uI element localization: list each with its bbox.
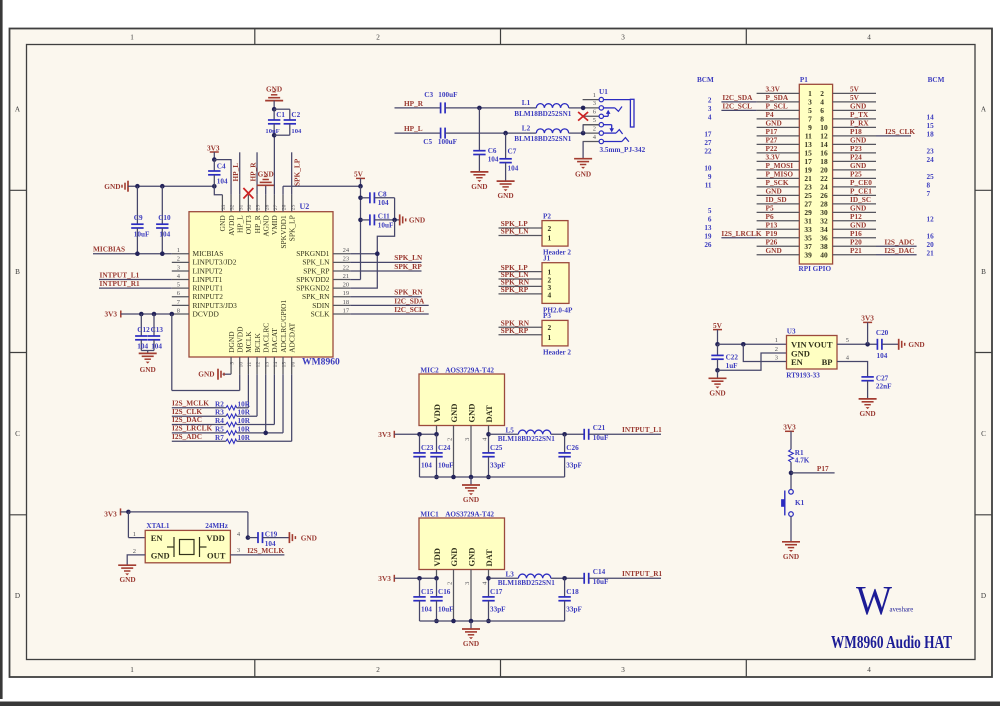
svg-text:3: 3 — [593, 100, 596, 107]
svg-text:R4: R4 — [215, 417, 224, 425]
svg-text:SPKVDD1: SPKVDD1 — [279, 215, 288, 249]
no-connect X on OUT3 — [243, 188, 253, 199]
svg-text:26: 26 — [704, 241, 712, 249]
svg-text:33pF: 33pF — [490, 605, 506, 613]
jack pin3 contact — [604, 107, 623, 112]
svg-text:12: 12 — [256, 362, 262, 368]
svg-text:AOS3729A-T42: AOS3729A-T42 — [445, 510, 494, 518]
svg-text:9: 9 — [230, 362, 236, 365]
svg-text:DAT: DAT — [484, 549, 494, 567]
svg-text:11: 11 — [247, 362, 253, 368]
jack sleeve symbol — [604, 99, 635, 127]
svg-text:2: 2 — [775, 346, 778, 353]
capacitor C5 — [423, 128, 457, 146]
inductor L1 BLM18BD252SN1 — [514, 99, 583, 118]
svg-text:1: 1 — [593, 92, 596, 99]
svg-text:4: 4 — [867, 666, 871, 674]
P1 right pins and nets — [820, 85, 876, 260]
svg-text:C5: C5 — [423, 138, 432, 146]
capacitor C4 — [208, 160, 228, 187]
svg-text:GND: GND — [198, 370, 214, 379]
svg-text:U1: U1 — [599, 88, 608, 96]
U2 right pin names — [296, 249, 330, 318]
net P17 — [791, 464, 835, 473]
net I2S_DAC at P1 — [876, 246, 917, 255]
wire jack pin5 to pin2 — [583, 125, 599, 133]
svg-text:DCVDD: DCVDD — [193, 309, 220, 318]
svg-text:I2S_ADC: I2S_ADC — [172, 432, 202, 441]
resistor R4 I2S_DAC — [172, 374, 275, 427]
wire BP to C27 — [837, 362, 868, 377]
svg-text:3: 3 — [775, 355, 778, 362]
svg-text:HP_L: HP_L — [231, 163, 240, 182]
svg-text:RPI GPIO: RPI GPIO — [799, 265, 832, 273]
svg-text:C11: C11 — [378, 213, 390, 221]
capacitor C13 — [148, 314, 164, 351]
svg-text:C25: C25 — [490, 444, 503, 452]
wire XTAL GND pin — [127, 555, 145, 565]
svg-text:2: 2 — [593, 125, 596, 132]
capacitor C16 — [430, 578, 454, 623]
svg-text:DBVDD: DBVDD — [236, 326, 245, 353]
svg-text:5: 5 — [593, 117, 596, 124]
MIC1 pin names — [432, 548, 494, 567]
svg-text:6: 6 — [708, 216, 712, 224]
svg-text:MIC1: MIC1 — [420, 510, 439, 518]
svg-text:3V3: 3V3 — [104, 510, 117, 519]
net I2S_CLK at P1 — [876, 127, 915, 136]
svg-text:2: 2 — [376, 34, 380, 42]
svg-text:104: 104 — [421, 461, 432, 469]
capacitor C26 — [558, 432, 582, 477]
J1 pin 1 SPK_LP — [499, 263, 552, 277]
svg-text:30: 30 — [247, 204, 253, 210]
U2 left pin stubs and numbers — [172, 247, 189, 314]
wire 3V3 to XTAL VDD — [128, 512, 250, 540]
bottom edge bar — [0, 702, 1000, 706]
svg-text:BLM18BD252SN1: BLM18BD252SN1 — [514, 110, 572, 118]
svg-text:P3: P3 — [543, 312, 551, 320]
capacitor C12 — [135, 314, 150, 351]
regulator U3 body — [786, 328, 837, 380]
capacitor C11 — [361, 213, 400, 230]
capacitor C10 — [156, 186, 171, 256]
op-amp U2 WM8960 body — [189, 202, 340, 368]
svg-text:10R: 10R — [238, 434, 251, 442]
svg-text:GND: GND — [151, 550, 170, 560]
P1 left BCM numbers — [704, 97, 712, 249]
svg-text:2: 2 — [133, 548, 136, 555]
net HP_L to jack — [395, 124, 441, 133]
connector P3 body — [542, 312, 571, 357]
svg-text:10R: 10R — [238, 425, 251, 433]
wire 3V3 to AVDD — [214, 160, 231, 195]
svg-text:10: 10 — [704, 165, 712, 173]
svg-text:3V3: 3V3 — [105, 309, 118, 318]
svg-text:I2S_LRCLK: I2S_LRCLK — [721, 229, 761, 238]
svg-text:HP_L: HP_L — [236, 215, 245, 233]
svg-text:GND: GND — [104, 182, 120, 191]
net SPK_RP at pin22 — [350, 262, 422, 271]
wire GND to SPKGND1 SPKGND2 — [350, 198, 397, 288]
U3 pin numbers — [775, 337, 850, 362]
svg-text:SPK_RP: SPK_RP — [501, 326, 529, 335]
svg-text:HP_R: HP_R — [404, 99, 424, 108]
svg-text:A: A — [981, 106, 987, 114]
wire C3 to L1 — [445, 106, 536, 111]
svg-text:C18: C18 — [566, 588, 579, 596]
svg-text:23: 23 — [927, 148, 935, 156]
no-connect X on jack pin6 — [578, 112, 588, 121]
power 3V3 at pin8 DCVDD — [105, 309, 175, 318]
svg-text:GND: GND — [466, 404, 476, 423]
svg-text:C9: C9 — [134, 214, 143, 222]
net SPK_LN at pin23 — [350, 253, 423, 262]
MIC1 pin stubs — [437, 570, 489, 622]
ground below MIC2 — [462, 485, 480, 504]
svg-text:VMID: VMID — [270, 215, 279, 235]
svg-text:K1: K1 — [795, 499, 805, 507]
svg-text:8: 8 — [177, 307, 180, 314]
capacitor C15 — [413, 578, 433, 621]
svg-text:29: 29 — [256, 204, 262, 210]
svg-text:3: 3 — [708, 105, 712, 113]
net SPK_RN at pin19 — [350, 288, 423, 297]
svg-text:R5: R5 — [215, 425, 224, 433]
net INTPUT_L1 at pin4 — [99, 270, 172, 279]
svg-text:1uF: 1uF — [726, 362, 739, 370]
net INTPUT_R1 at pin5 — [99, 279, 172, 288]
svg-text:1: 1 — [130, 34, 134, 42]
svg-text:C23: C23 — [421, 444, 434, 452]
power 5V at U3 — [713, 321, 723, 347]
svg-text:VOUT: VOUT — [808, 340, 833, 350]
svg-text:GND: GND — [908, 340, 924, 349]
capacitor C3 — [424, 91, 458, 114]
svg-text:1: 1 — [548, 333, 552, 342]
MIC2 pin names — [432, 404, 494, 423]
svg-text:15: 15 — [282, 362, 288, 368]
ground below K1 — [782, 542, 800, 561]
svg-text:104: 104 — [151, 342, 162, 350]
svg-text:BLM18BD252SN1: BLM18BD252SN1 — [498, 435, 556, 443]
resistor R3 I2S_CLK — [172, 374, 257, 418]
svg-text:GND: GND — [783, 552, 799, 561]
svg-text:5V: 5V — [354, 170, 364, 179]
svg-text:C17: C17 — [490, 588, 503, 596]
P1 right BCM numbers — [927, 114, 935, 258]
svg-text:WM8960: WM8960 — [302, 357, 340, 368]
svg-text:BCLK: BCLK — [253, 332, 262, 352]
P2 pin 2 SPK_LP — [499, 219, 552, 233]
power 3V3 at U3 — [861, 314, 874, 345]
svg-text:C27: C27 — [876, 374, 889, 382]
svg-text:C16: C16 — [438, 588, 451, 596]
svg-text:P1: P1 — [800, 76, 808, 84]
wire SPKVDD1 to 5V — [283, 186, 360, 195]
svg-text:U3: U3 — [787, 328, 796, 336]
resistor R1 4.7K — [789, 449, 810, 464]
wire VMID to C1 C2 — [273, 135, 275, 195]
U2 left pin names — [193, 249, 238, 318]
svg-text:XTAL1: XTAL1 — [146, 522, 169, 530]
svg-text:104: 104 — [378, 199, 389, 207]
svg-text:C3: C3 — [424, 91, 433, 99]
svg-text:L1: L1 — [522, 99, 531, 107]
power 3V3 at C4 — [207, 143, 220, 162]
ground below XTAL1 — [118, 565, 136, 584]
svg-text:C14: C14 — [593, 568, 606, 576]
MIC2 ground rail — [420, 475, 565, 485]
wire 3V3 rail to DBVDD — [172, 314, 240, 391]
svg-text:24MHz: 24MHz — [205, 522, 229, 530]
ground below MIC1 — [462, 629, 480, 648]
svg-text:I2C_SCL: I2C_SCL — [394, 305, 424, 314]
U2 bottom pin names — [227, 300, 297, 353]
svg-text:33pF: 33pF — [490, 461, 506, 469]
svg-text:GND: GND — [466, 548, 476, 567]
svg-text:AOS3729A-T42: AOS3729A-T42 — [445, 366, 494, 374]
svg-text:GND: GND — [463, 495, 479, 504]
net HP_R at U2 — [249, 152, 258, 194]
svg-text:10uF: 10uF — [593, 434, 609, 442]
svg-text:2: 2 — [548, 323, 552, 332]
svg-text:GND: GND — [449, 404, 459, 423]
svg-text:BP: BP — [822, 357, 833, 367]
U2 bottom pin stubs and numbers — [230, 357, 297, 374]
capacitor C25 — [482, 432, 506, 479]
svg-text:I2S_CLK: I2S_CLK — [885, 127, 915, 136]
svg-text:11: 11 — [705, 182, 712, 190]
svg-text:33pF: 33pF — [566, 461, 582, 469]
svg-text:21: 21 — [927, 250, 935, 258]
svg-text:L2: L2 — [522, 124, 531, 132]
svg-text:MICBIAS: MICBIAS — [93, 245, 125, 254]
capacitor C27 — [861, 374, 892, 399]
ground right of C20 — [899, 339, 925, 350]
connector J1 body — [542, 254, 573, 314]
svg-text:BLM18BD252SN1: BLM18BD252SN1 — [514, 135, 572, 143]
svg-text:C7: C7 — [508, 148, 517, 156]
svg-text:5: 5 — [708, 207, 712, 215]
svg-text:GND: GND — [301, 533, 317, 542]
svg-text:2: 2 — [376, 666, 380, 674]
net SPK_LP at U2 — [292, 152, 302, 194]
microphone MIC1 AOS3729A-T42 body — [419, 510, 505, 569]
svg-text:C8: C8 — [378, 191, 387, 199]
wire VOUT to 3V3 — [837, 342, 877, 347]
svg-text:3V3: 3V3 — [378, 574, 391, 583]
ground right of C19 — [289, 532, 317, 543]
svg-text:RT9193-33: RT9193-33 — [786, 371, 820, 379]
net I2S_MCLK at XTAL OUT — [230, 546, 284, 555]
capacitor C14 — [584, 568, 661, 586]
svg-text:14: 14 — [927, 114, 935, 122]
svg-text:L5: L5 — [506, 426, 515, 434]
svg-text:D: D — [15, 592, 20, 600]
svg-text:EN: EN — [151, 533, 164, 543]
svg-text:I2S_MCLK: I2S_MCLK — [247, 546, 284, 555]
svg-text:4: 4 — [867, 34, 871, 42]
capacitor C2 — [274, 109, 302, 135]
svg-text:GND: GND — [497, 191, 513, 200]
net INTPUT_L1 — [622, 425, 662, 434]
ground below C27 — [859, 399, 877, 418]
svg-text:HP_L: HP_L — [404, 124, 423, 133]
microphone MIC2 AOS3729A-T42 body — [419, 366, 505, 425]
svg-text:SPK_LN: SPK_LN — [501, 227, 530, 236]
svg-text:C12: C12 — [137, 326, 150, 334]
svg-text:27: 27 — [273, 204, 279, 210]
svg-text:ADCDAT: ADCDAT — [287, 322, 296, 352]
svg-text:1: 1 — [775, 337, 778, 344]
svg-text:C2: C2 — [291, 111, 300, 119]
svg-text:C: C — [15, 430, 20, 438]
resistor R7 I2S_ADC — [172, 374, 292, 443]
net I2S_LRCLK at P1 — [721, 229, 761, 238]
svg-text:B: B — [15, 268, 20, 276]
svg-text:B: B — [981, 268, 986, 276]
svg-text:10uF: 10uF — [438, 605, 454, 613]
connector P1 RPI GPIO body — [799, 76, 833, 273]
junction dots on jack pins — [581, 106, 586, 136]
svg-text:31: 31 — [238, 204, 244, 210]
svg-text:10R: 10R — [238, 400, 251, 408]
svg-text:R3: R3 — [215, 409, 224, 417]
svg-text:GND: GND — [463, 639, 479, 648]
wire 3V3 to XTAL EN — [128, 512, 145, 538]
svg-text:C19: C19 — [265, 531, 278, 539]
svg-text:U2: U2 — [300, 202, 310, 211]
svg-text:AGND: AGND — [262, 215, 271, 237]
svg-text:100uF: 100uF — [438, 138, 458, 146]
svg-text:MIC2: MIC2 — [420, 366, 439, 374]
svg-text:100uF: 100uF — [438, 91, 458, 99]
svg-text:C15: C15 — [421, 588, 434, 596]
svg-text:1: 1 — [177, 247, 180, 254]
ground right of C11 — [400, 214, 425, 225]
net INTPUT_R1 — [622, 569, 662, 578]
power 3V3 at R1 — [783, 423, 796, 450]
svg-text:I2C_SCL: I2C_SCL — [722, 102, 752, 111]
svg-text:13: 13 — [264, 362, 270, 368]
left edge bar — [0, 0, 3, 699]
svg-text:C21: C21 — [593, 424, 606, 432]
svg-text:SCLK: SCLK — [311, 309, 331, 318]
svg-text:2: 2 — [548, 224, 552, 233]
svg-text:VDD: VDD — [432, 548, 442, 566]
svg-text:GND: GND — [140, 365, 156, 374]
P1 left pins and nets — [757, 85, 813, 260]
svg-text:17: 17 — [343, 307, 350, 314]
capacitor C23 — [413, 434, 433, 477]
wire K1 to ground — [790, 516, 792, 541]
svg-text:3: 3 — [621, 34, 625, 42]
svg-text:L3: L3 — [506, 570, 515, 578]
svg-text:3: 3 — [621, 666, 625, 674]
svg-text:P2: P2 — [543, 212, 551, 220]
svg-text:25: 25 — [290, 204, 296, 210]
svg-text:MCLK: MCLK — [244, 331, 253, 353]
wire GND rail to U2 GND pin — [214, 186, 222, 195]
U3 pin texts — [791, 340, 833, 368]
svg-text:20: 20 — [927, 241, 935, 249]
U2 top pin stubs and numbers — [221, 195, 296, 212]
svg-text:22nF: 22nF — [876, 383, 892, 391]
svg-text:32: 32 — [230, 204, 236, 210]
svg-text:104: 104 — [159, 231, 170, 239]
svg-text:OUT: OUT — [207, 550, 226, 560]
power 3V3 at MIC2 — [378, 430, 439, 439]
svg-text:GND: GND — [119, 575, 135, 584]
inductor L2 BLM18BD252SN1 — [514, 124, 583, 143]
svg-text:104: 104 — [291, 128, 302, 135]
svg-text:40: 40 — [820, 250, 828, 259]
svg-text:20: 20 — [343, 282, 350, 289]
inductor L5 BLM18BD252SN1 — [489, 426, 585, 443]
inductor L3 BLM18BD252SN1 — [489, 570, 585, 587]
svg-text:C13: C13 — [151, 326, 164, 334]
ground below C12 C13 — [139, 351, 157, 374]
svg-text:A: A — [15, 106, 21, 114]
svg-text:2: 2 — [447, 582, 454, 585]
net I2C_SDA at P1 — [721, 93, 756, 102]
power 3V3 at MIC1 — [378, 574, 439, 583]
svg-text:1: 1 — [133, 531, 136, 538]
svg-text:5V: 5V — [713, 321, 723, 330]
svg-text:C20: C20 — [876, 329, 889, 337]
connector P2 body — [542, 212, 571, 256]
svg-text:22: 22 — [704, 148, 712, 156]
svg-text:C: C — [981, 430, 986, 438]
svg-text:R2: R2 — [215, 400, 224, 408]
svg-text:DAT: DAT — [484, 405, 494, 423]
XTAL1 pin texts — [151, 533, 226, 560]
capacitor C17 — [482, 576, 506, 623]
wire EN tie to VIN — [743, 344, 786, 361]
wire 5V to SPKVDD2 — [350, 186, 363, 279]
net HP_R to jack — [395, 99, 441, 108]
ground below C6 — [470, 172, 488, 191]
wire U3 GND pin to C22 — [718, 353, 787, 370]
U2 top pin names — [218, 215, 296, 249]
oscillator XTAL1 body — [145, 522, 230, 563]
svg-text:33: 33 — [221, 204, 227, 210]
svg-text:3: 3 — [464, 582, 471, 585]
svg-text:10uF: 10uF — [438, 461, 454, 469]
svg-text:24: 24 — [343, 247, 350, 254]
J1 pin 3 SPK_RN — [499, 278, 552, 292]
jack pin6 contact arm — [604, 110, 611, 117]
svg-text:28: 28 — [264, 204, 270, 210]
svg-text:104: 104 — [488, 155, 499, 163]
svg-text:OUT3: OUT3 — [244, 215, 253, 234]
svg-text:C26: C26 — [566, 444, 579, 452]
svg-text:4: 4 — [708, 114, 712, 122]
svg-text:INTPUT_R1: INTPUT_R1 — [622, 569, 662, 578]
svg-text:1: 1 — [548, 234, 552, 243]
svg-text:4: 4 — [548, 290, 552, 299]
svg-text:DGND: DGND — [227, 331, 236, 353]
svg-text:14: 14 — [273, 362, 279, 368]
svg-text:GND: GND — [218, 215, 227, 232]
svg-text:P21: P21 — [850, 246, 862, 255]
svg-text:SPK_RP: SPK_RP — [501, 285, 529, 294]
capacitor C20 — [876, 329, 899, 360]
svg-text:10uF: 10uF — [134, 231, 150, 239]
ground below C7 — [497, 181, 515, 200]
svg-text:3V3: 3V3 — [861, 314, 874, 323]
